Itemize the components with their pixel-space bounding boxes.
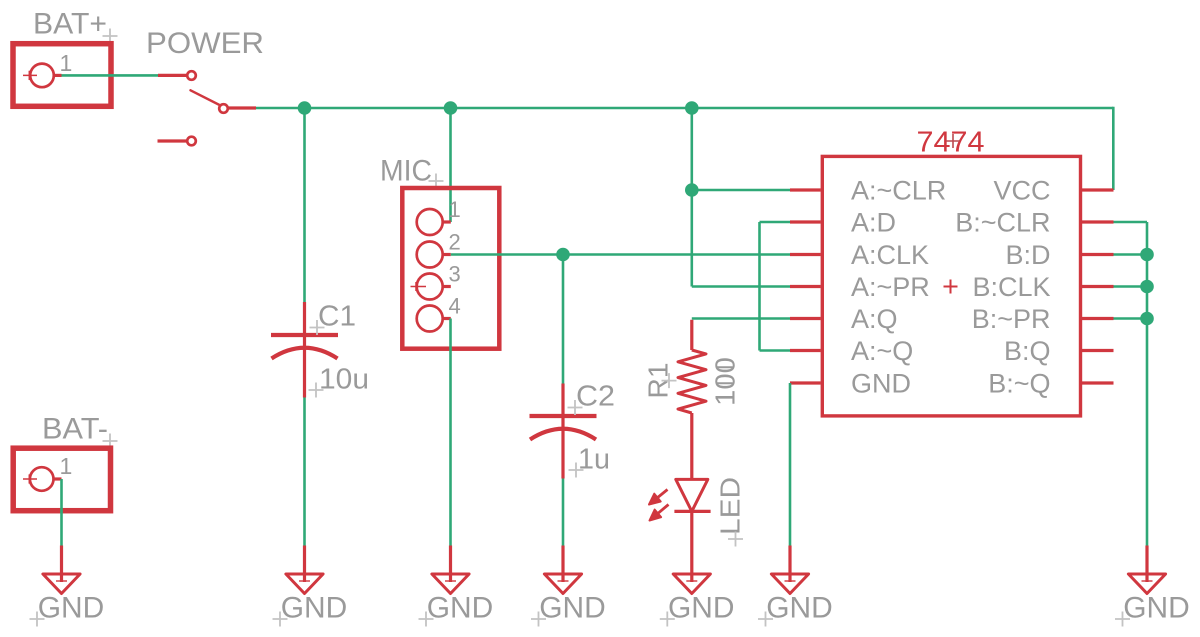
pin lead (7474 right pin B:~Q) — [1082, 381, 1114, 384]
junction (A:~CLR tap) — [685, 183, 699, 197]
svg-text:A:~Q: A:~Q — [851, 336, 913, 366]
pin lead (7474 right pin VCC) — [1082, 188, 1114, 191]
slashed zero marks on R1 value — [717, 367, 733, 383]
svg-text:B:~CLR: B:~CLR — [955, 208, 1050, 238]
junction (B:D) — [1140, 248, 1154, 262]
svg-text:B:Q: B:Q — [1004, 336, 1051, 366]
pin lead (switch pin 1) — [158, 74, 187, 77]
LED cathode wire to ground — [690, 511, 693, 582]
pin origin cross (BAT+ pin 1) — [23, 71, 37, 80]
ground symbol (7474) — [771, 546, 808, 594]
switch S1 pin 2 contact circle — [219, 104, 228, 113]
wire net VCC down to MIC pin 1 — [449, 108, 452, 222]
connector J1 BAT+ body — [13, 44, 111, 107]
pin origin cross (BAT- pin 1) — [23, 474, 37, 483]
svg-text:LED: LED — [715, 477, 746, 535]
capacitor C2 top plate — [530, 414, 597, 418]
svg-text:GND: GND — [427, 592, 494, 625]
junction (B:CLK) — [1140, 280, 1154, 294]
origin cross (C1 GND) — [273, 612, 288, 627]
wire net VBAT (BAT+ to switch) — [62, 74, 159, 77]
wire net VCC right drop to IC VCC pin — [1112, 107, 1115, 190]
wire net GND below C1 — [303, 398, 306, 546]
svg-text:A:~PR: A:~PR — [851, 272, 930, 302]
origin cross (LED GND) — [660, 612, 675, 627]
connector J2 BAT- pin 1 circle — [30, 467, 54, 491]
origin cross (BAT- GND) — [30, 612, 45, 627]
svg-text:1: 1 — [449, 197, 461, 222]
pin lead (MIC pin 3) — [443, 285, 451, 288]
svg-text:A:~CLR: A:~CLR — [851, 176, 946, 206]
wire net GND from BAT- — [60, 479, 63, 546]
svg-text:1: 1 — [60, 453, 73, 479]
wire net (B tie vertical) — [1146, 222, 1149, 546]
svg-text:MIC: MIC — [380, 155, 432, 188]
pin lead (7474 left pin A:~PR) — [790, 285, 821, 288]
pin lead (switch pin 2) — [229, 106, 257, 109]
wire net VCC down to 7474 A pins — [690, 108, 693, 287]
pin lead (7474 left pin A:~Q) — [790, 349, 821, 352]
svg-text:B:CLK: B:CLK — [972, 272, 1050, 302]
LED D1 cathode bar — [674, 510, 710, 513]
svg-text:3: 3 — [449, 262, 461, 287]
svg-text:GND: GND — [38, 592, 105, 625]
capacitor C2 bottom plate (curved) — [530, 429, 596, 440]
wire net down to C2 — [562, 255, 565, 384]
wire net GND below C2 — [562, 479, 565, 546]
connector MIC pin 1 circle — [417, 209, 443, 235]
connector MIC pin 4 circle — [417, 306, 443, 332]
resistor R1 zigzag body — [678, 350, 706, 413]
origin cross (R1 name) — [662, 373, 677, 388]
pin lead (7474 left pin A:CLK) — [790, 253, 821, 256]
svg-text:7474: 7474 — [917, 127, 985, 159]
pin lead (7474 right pin B:Q) — [1082, 349, 1114, 352]
origin cross (C2 name) — [568, 400, 583, 415]
ground symbol (BAT-) — [43, 546, 80, 594]
junction (MIC pin 2 wire / C2 branch) — [556, 248, 570, 262]
origin cross (C1 name) — [310, 320, 325, 335]
ground symbol (B-side) — [1128, 546, 1165, 594]
pin lead (7474 left pin A:D) — [790, 220, 821, 223]
svg-text:GND: GND — [668, 592, 735, 625]
connector J2 BAT- body — [13, 448, 110, 511]
wire net (to 7474 A:~PR) — [692, 285, 790, 288]
connector MIC pin 2 circle — [417, 242, 443, 268]
svg-text:100: 100 — [710, 357, 741, 406]
svg-text:1: 1 — [60, 50, 73, 76]
junction (rail / MIC branch) — [444, 101, 458, 115]
svg-text:A:D: A:D — [851, 208, 896, 238]
capacitor C1 leads — [303, 302, 306, 398]
pin origin cross (MIC pin 3) — [411, 282, 427, 291]
capacitor C2 leads — [561, 384, 564, 479]
IC U1 7474 body — [822, 156, 1080, 416]
origin cross (C1 value) — [309, 383, 324, 398]
LED D1 triangle — [676, 479, 708, 511]
capacitor C1 bottom plate (curved) — [272, 348, 338, 359]
svg-text:VCC: VCC — [993, 176, 1050, 206]
svg-text:GND: GND — [766, 592, 833, 625]
svg-text:GND: GND — [281, 592, 348, 625]
pin lead (7474 right pin B:CLK) — [1082, 285, 1114, 288]
pin lead (switch pin 3, unconnected) — [158, 139, 187, 142]
svg-text:GND: GND — [1123, 592, 1190, 625]
wire net (MIC pin 2 to 7474 A:CLK) — [451, 253, 790, 256]
origin cross (MIC GND) — [419, 612, 434, 627]
pin lead (7474 right pin B:~PR) — [1082, 317, 1114, 320]
ground symbol (C2) — [544, 546, 581, 594]
ground symbol (MIC) — [432, 546, 469, 594]
origin cross (LED) — [728, 532, 743, 547]
wire net (A:D to A:~Q) vertical — [758, 222, 761, 351]
wire net (A:D to A:~Q) horizontal bottom — [760, 349, 791, 352]
svg-text:B:~Q: B:~Q — [988, 369, 1050, 399]
origin cross (7474 label) — [946, 134, 960, 148]
wire net GND below 7474 GND pin — [789, 383, 792, 546]
junction (B:~PR) — [1140, 312, 1154, 326]
svg-text:BAT-: BAT- — [42, 413, 108, 446]
junction (rail / C1 branch) — [298, 101, 312, 115]
svg-text:GND: GND — [539, 592, 606, 625]
LED D1 emission arrow 1 — [658, 490, 668, 498]
resistor R1 top lead — [690, 320, 693, 350]
svg-text:B:D: B:D — [1005, 240, 1050, 270]
origin cross (BAT+) — [103, 29, 118, 44]
pin lead (7474 right pin B:~CLR) — [1082, 220, 1114, 223]
svg-text:BAT+: BAT+ — [33, 8, 107, 41]
origin cross (MIC) — [429, 174, 444, 189]
svg-text:POWER: POWER — [146, 27, 264, 60]
svg-text:A:CLK: A:CLK — [851, 240, 929, 270]
wire net (A:D to A:~Q) horizontal top — [760, 221, 791, 224]
wire net (B:D tap) — [1114, 253, 1148, 256]
ground symbol (LED) — [673, 574, 710, 594]
svg-text:B:~PR: B:~PR — [972, 304, 1051, 334]
origin cross (C2 value) — [569, 463, 584, 478]
pin lead (BAT- pin 1) — [54, 477, 62, 480]
wire net (B:~PR tap) — [1114, 317, 1148, 320]
resistor R1 bottom lead / LED anode wire — [690, 413, 693, 479]
svg-text:GND: GND — [851, 369, 911, 399]
switch S1 pin 3 contact circle — [187, 137, 196, 146]
wire net VCC down to C1 — [303, 108, 306, 302]
capacitor C1 top plate — [271, 333, 338, 337]
wire net (B:~CLR corner) — [1114, 221, 1148, 224]
wire net GND below MIC pin 4 — [449, 319, 452, 546]
origin cross (7474 part, red) — [944, 280, 958, 294]
origin cross (C2 GND) — [531, 612, 546, 627]
svg-text:4: 4 — [449, 294, 461, 319]
svg-text:2: 2 — [449, 230, 461, 255]
connector MIC pin 3 circle — [417, 274, 443, 300]
pin lead (MIC pin 4) — [443, 317, 451, 320]
pin lead (MIC pin 2) — [443, 253, 451, 256]
wire net (B:CLK tap) — [1114, 285, 1148, 288]
connector J1 BAT+ pin 1 circle — [30, 64, 54, 88]
svg-text:A:Q: A:Q — [851, 304, 898, 334]
svg-text:10u: 10u — [319, 364, 369, 396]
wire net (A:Q to R1) — [692, 317, 790, 320]
switch S1 lever — [191, 90, 221, 105]
pin lead (BAT+ pin 1) — [54, 74, 62, 77]
switch S1 pin 1 contact circle — [187, 71, 196, 80]
origin cross (7474 GND) — [758, 612, 773, 627]
pin lead (7474 left pin A:Q) — [790, 317, 821, 320]
origin cross (B-side GND) — [1115, 612, 1130, 627]
LED D1 emission arrow 2 — [658, 505, 669, 514]
junction (rail / 7474 branch) — [685, 101, 699, 115]
wire net (to 7474 A:~CLR) — [692, 189, 790, 192]
pin lead (7474 left pin GND) — [790, 381, 821, 384]
ground symbol (C1) — [286, 546, 323, 594]
pin lead (7474 right pin B:D) — [1082, 253, 1114, 256]
wire net VCC main horizontal rail — [256, 107, 1113, 110]
pin lead (7474 left pin A:~CLR) — [790, 188, 821, 191]
pin lead (MIC pin 1) — [443, 220, 451, 223]
connector MIC body — [402, 188, 499, 349]
origin cross (BAT-) — [103, 434, 118, 449]
